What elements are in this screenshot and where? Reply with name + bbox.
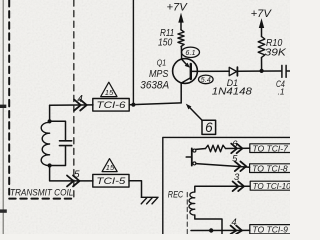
callout arrow from box 6 to collector node — [188, 106, 202, 120]
wire: jack to resistor row1 — [196, 148, 206, 151]
svg-text:TO TCI-7: TO TCI-7 — [252, 144, 288, 153]
wire: coil bottom to TCI-5 row — [50, 166, 93, 181]
receive coil dashed boundary — [186, 193, 188, 235]
svg-text:5: 5 — [74, 169, 80, 180]
svg-text:4: 4 — [77, 94, 83, 105]
wire: receive coil top to TO TCI-10 — [195, 186, 250, 192]
svg-text:5: 5 — [232, 154, 238, 165]
svg-text:6.1: 6.1 — [185, 48, 195, 57]
left edge tick mark lower — [0, 209, 7, 212]
svg-text:TCI-6: TCI-6 — [97, 100, 127, 111]
svg-text:+7V: +7V — [167, 2, 189, 14]
connector chevrons pin 4 — [231, 226, 242, 234]
wire: TCI-6 to transistor collector — [129, 103, 181, 105]
svg-text:15: 15 — [105, 88, 114, 97]
transmit coil shield dashed box left edge — [8, 0, 10, 195]
connector chevrons pin 6 — [231, 144, 242, 154]
svg-text:1N4148: 1N4148 — [212, 87, 252, 98]
capacitor parallel with transmit coil — [60, 140, 72, 142]
wire: R11 to Q1 emitter — [180, 47, 182, 60]
callout box 6 — [202, 120, 216, 134]
destination box TO TCI-10 — [250, 181, 293, 190]
wire: resistor to TO TCI-7 — [226, 147, 250, 149]
connector chevrons pin 3 — [233, 181, 244, 191]
svg-text:.1: .1 — [278, 86, 285, 96]
svg-text:3638A: 3638A — [140, 79, 169, 91]
connector chevrons pin 4 to TCI-6 — [74, 100, 87, 111]
chassis ground — [141, 197, 158, 204]
wire: TCI-6 row horizontal to corner — [50, 104, 93, 106]
wire: C4 to right edge — [286, 70, 290, 72]
svg-text:150: 150 — [158, 38, 173, 49]
REC section box — [163, 137, 290, 234]
diode D1 — [229, 67, 237, 75]
wire: R10 to junction — [261, 58, 263, 71]
jack contacts — [186, 148, 196, 165]
svg-text:TRANSMIT COIL: TRANSMIT COIL — [10, 188, 73, 198]
svg-text:4: 4 — [231, 217, 236, 228]
svg-text:6: 6 — [205, 120, 213, 135]
note triangle 15 above TCI-6 — [101, 82, 117, 96]
node: junction dot at TCI-6 output — [131, 103, 135, 107]
svg-text:REC: REC — [168, 189, 184, 199]
wire: diode to C4 — [238, 70, 282, 72]
voltage callout 5.4 — [199, 75, 214, 84]
svg-text:15: 15 — [106, 163, 115, 172]
voltage callout 6.1 — [182, 47, 200, 57]
svg-text:TCI-5: TCI-5 — [96, 176, 126, 187]
node: junction dot coil bottom — [48, 163, 52, 167]
connector chevrons pin 5 — [235, 161, 246, 171]
connector box TCI-5 — [93, 174, 129, 187]
resistor row1 — [206, 145, 226, 152]
transistor Q1 — [173, 59, 198, 84]
svg-text:MPS: MPS — [149, 69, 169, 80]
capacitor C4 — [281, 65, 283, 77]
wire: vertical net to top edge — [132, 0, 134, 105]
wire: receive coil bottom L — [195, 215, 222, 234]
node: junction dot coil top — [48, 119, 52, 123]
page edge line — [2, 0, 4, 234]
svg-text:TO TCI-10: TO TCI-10 — [253, 182, 290, 191]
wire: bottom row to TO TCI-9 — [191, 229, 250, 231]
svg-text:TO TCI-9: TO TCI-9 — [252, 226, 288, 234]
svg-text:6: 6 — [232, 139, 238, 150]
node: junction dot bottom row — [209, 228, 213, 232]
left edge tick mark upper — [0, 105, 6, 108]
wire: capacitor branch top — [50, 121, 66, 140]
wire: capacitor branch bottom — [50, 147, 66, 166]
svg-text:TO TCI-8: TO TCI-8 — [252, 164, 288, 173]
wire: Q1 base to diode — [191, 70, 229, 72]
wire: TCI-5 to ground — [129, 181, 142, 197]
destination box TO TCI-8 — [250, 164, 293, 173]
wire: corner down to coil top — [49, 105, 51, 121]
connector box TCI-6 — [93, 99, 129, 112]
destination box TO TCI-7 — [250, 144, 293, 153]
node: junction dot under R10 — [260, 69, 264, 73]
inductor receive coil — [189, 192, 195, 215]
svg-text:+7V: +7V — [251, 8, 273, 20]
wire: jack to TO TCI-8 — [196, 164, 250, 168]
note triangle 15 above TCI-5 — [102, 159, 117, 172]
connector chevrons pin 5 to TCI-5 — [67, 176, 80, 187]
destination box TO TCI-9 — [250, 225, 293, 234]
svg-text:5.4: 5.4 — [201, 77, 211, 84]
svg-text:Q1: Q1 — [157, 58, 166, 68]
svg-text:3: 3 — [234, 172, 240, 183]
resistor R11 — [178, 30, 184, 47]
svg-text:39K: 39K — [265, 46, 287, 58]
transmit coil shield dashed box bottom edge — [9, 198, 73, 200]
wire: Q1 collector down — [180, 83, 182, 103]
resistor R10 — [258, 37, 265, 58]
transmit coil shield dashed box right edge — [73, 0, 75, 199]
inductor transmit coil — [41, 122, 49, 165]
